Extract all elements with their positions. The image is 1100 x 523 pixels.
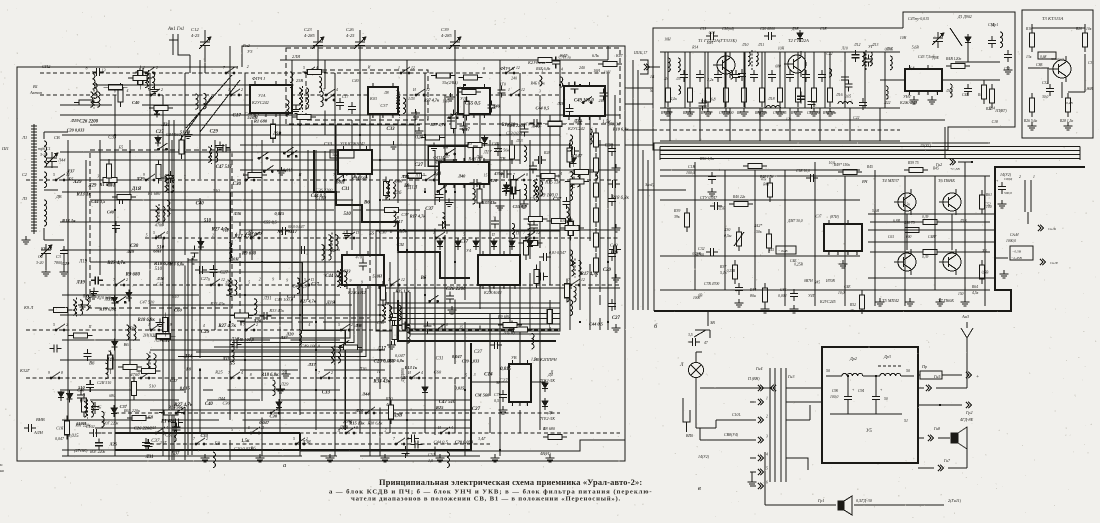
svg-text:R14: R14	[691, 45, 698, 49]
wire vertical	[509, 115, 511, 330]
rail bottom B3	[660, 289, 990, 291]
svg-text:С№Н: С№Н	[1010, 233, 1019, 237]
wire vertical segment	[454, 299, 456, 364]
wire fan	[398, 292, 560, 319]
capacitor	[566, 104, 574, 116]
wire	[826, 375, 842, 377]
transistor T4 MP37	[894, 189, 916, 215]
speaker Gr1	[838, 496, 852, 515]
ferrite rod hatch	[31, 134, 37, 136]
svg-text:1,5к: 1,5к	[399, 229, 408, 234]
resistor	[229, 313, 253, 318]
wire horizontal segment	[150, 209, 334, 211]
svg-text:1,5к: 1,5к	[241, 439, 250, 444]
resistor R30 volume	[737, 227, 742, 251]
inductor L9	[403, 98, 406, 114]
svg-text:СВ8(У4): СВ8(У4)	[724, 433, 739, 437]
wire vertical segment	[397, 120, 399, 203]
svg-text:Д9Е: Д9Е	[931, 56, 939, 60]
switch contact	[515, 174, 525, 181]
transformer core	[751, 50, 753, 70]
wire	[765, 504, 836, 506]
svg-text:5: 5	[503, 286, 505, 290]
capacitor	[359, 259, 367, 271]
wire horizontal segment	[483, 159, 520, 161]
svg-text:СМ(о4): СМ(о4)	[722, 27, 735, 31]
wire	[764, 452, 766, 505]
switch contact	[155, 427, 165, 434]
bus wire heavy 2	[187, 258, 189, 455]
resistor С21 120	[812, 83, 817, 107]
switch contact	[145, 67, 155, 74]
svg-text:9: 9	[349, 279, 351, 283]
svg-text:С1В: С1В	[688, 165, 696, 169]
diode	[570, 155, 576, 167]
svg-text:510: 510	[78, 385, 85, 390]
wire vertical segment	[162, 95, 164, 226]
capacitor	[497, 86, 505, 98]
svg-text:5: 5	[338, 323, 340, 327]
svg-text:R15 13к: R15 13к	[395, 288, 410, 293]
resistor	[159, 410, 183, 415]
svg-text:У5: У5	[866, 429, 872, 434]
resistor R35	[560, 226, 584, 231]
wire	[689, 52, 691, 83]
wire vertical segment	[229, 440, 231, 460]
svg-text:С7И 3и: С7И 3и	[608, 122, 620, 126]
svg-text:Пр: Пр	[921, 364, 927, 369]
wire	[43, 132, 45, 139]
wire	[1068, 91, 1085, 93]
capacitor	[571, 82, 579, 94]
svg-text:2: 2	[259, 278, 261, 282]
svg-text:12к: 12к	[786, 118, 792, 122]
resistor R48 1.5k	[768, 178, 773, 202]
resistor	[98, 177, 122, 182]
inductor	[92, 74, 95, 90]
svg-text:Др2: Др2	[849, 356, 857, 361]
resistor	[81, 393, 86, 417]
ferrite rod hatch	[31, 185, 37, 187]
svg-text:0,015: 0,015	[283, 168, 294, 173]
diode	[527, 238, 533, 250]
inductor	[731, 70, 733, 79]
svg-text:6Лк: 6Лк	[592, 53, 599, 58]
wire vertical segment	[324, 110, 326, 135]
wire	[786, 387, 822, 389]
resistor R2 1к	[688, 83, 693, 107]
inductor	[167, 201, 170, 217]
wire horizontal segment	[378, 304, 385, 306]
svg-text:4: 4	[766, 453, 768, 457]
ground	[22, 236, 31, 244]
wire horizontal segment	[298, 321, 313, 323]
inductor	[337, 271, 340, 287]
svg-text:3: 3	[97, 174, 99, 178]
transformer core	[93, 90, 95, 109]
wire	[868, 241, 995, 243]
speaker Gr2	[951, 427, 967, 449]
rail B3	[868, 277, 995, 279]
svg-text:3: 3	[837, 252, 839, 256]
wire to Gn2	[944, 127, 946, 158]
capacitor	[91, 276, 103, 284]
inductor	[208, 147, 211, 163]
svg-text:1: 1	[462, 115, 464, 119]
svg-text:П: П	[88, 325, 92, 329]
ferrite rod hatch	[31, 158, 37, 160]
svg-text:Принципиальная электрическая: Принципиальная электрическая схема прием…	[379, 478, 642, 487]
wire vertical B3	[784, 170, 786, 306]
switch contact	[245, 324, 255, 331]
inductor	[539, 76, 542, 86]
wire	[958, 161, 972, 163]
svg-text:15: 15	[459, 325, 463, 329]
ground	[89, 291, 98, 299]
svg-text:С18: С18	[709, 31, 715, 35]
capacitor	[162, 174, 174, 182]
svg-text:1: 1	[511, 403, 513, 407]
resistor R39	[685, 208, 690, 232]
wire horizontal segment	[90, 199, 353, 201]
svg-text:Л17: Л17	[377, 347, 387, 352]
junction	[244, 359, 246, 361]
junction	[464, 84, 466, 86]
resistor	[338, 345, 362, 350]
wire vertical segment	[324, 60, 326, 89]
svg-text:R49* 150к: R49* 150к	[833, 163, 850, 167]
ladder connector row	[758, 483, 763, 489]
resistor R49	[838, 170, 862, 175]
svg-text:0,015: 0,015	[455, 385, 465, 390]
ferrite rod hatch	[31, 149, 37, 151]
resistor right column	[594, 253, 599, 277]
svg-text:680: 680	[80, 398, 86, 402]
svg-text:68Н: 68Н	[153, 249, 161, 254]
svg-text:С44 0,5: С44 0,5	[91, 199, 106, 204]
inductor right column	[570, 300, 573, 316]
svg-text:4-285: 4-285	[304, 33, 315, 38]
ferrite rod hatch	[31, 179, 37, 181]
capacitor C94	[872, 392, 880, 404]
svg-text:С32: С32	[1042, 81, 1048, 85]
transformer core	[149, 352, 151, 371]
interblock wire	[642, 150, 644, 310]
wire	[700, 387, 772, 389]
svg-text:1: 1	[418, 173, 420, 177]
voltage callout box	[1010, 246, 1033, 260]
wire horizontal	[62, 134, 560, 136]
svg-text:ДВ 4Б: ДВ 4Б	[90, 405, 102, 409]
svg-text:4: 4	[236, 66, 238, 70]
svg-text:Л38: Л38	[354, 323, 363, 328]
wire	[868, 229, 995, 231]
switch contact	[245, 174, 255, 181]
wire fan	[394, 292, 560, 313]
inductor Dr2	[842, 373, 863, 376]
svg-text:трб.С1: трб.С1	[38, 146, 51, 151]
ground	[291, 106, 300, 114]
svg-text:К2УС242: К2УС242	[251, 100, 269, 105]
IC U1G K2ZhA242	[905, 65, 942, 96]
switch gang dashed line	[26, 329, 560, 331]
connector ladder bar	[785, 368, 787, 482]
wire vertical	[579, 95, 581, 310]
svg-text:Л31: Л31	[145, 455, 154, 460]
wire	[1079, 147, 1081, 161]
wire vertical segment	[199, 60, 201, 179]
svg-text:С37: С37	[425, 207, 434, 212]
svg-text:Л36: Л36	[156, 276, 165, 281]
svg-text:С47 510: С47 510	[140, 300, 155, 305]
svg-text:Л36: Л36	[392, 191, 402, 196]
wire horizontal segment	[588, 287, 620, 289]
svg-text:1: 1	[1033, 175, 1035, 179]
resistor	[509, 327, 533, 332]
junction	[334, 399, 336, 401]
svg-text:П: П	[414, 173, 418, 177]
wire vertical segment	[569, 140, 571, 168]
svg-text:R10 6,8к: R10 6,8к	[388, 358, 405, 363]
svg-text:Гр1: Гр1	[817, 498, 824, 503]
svg-text:С22: С22	[853, 116, 859, 120]
svg-text:R45: R45	[767, 248, 774, 252]
wire vertical segment	[424, 73, 426, 167]
wire fan	[390, 292, 560, 308]
IC U1G K2US242	[564, 82, 605, 121]
ground bottom row	[491, 454, 500, 462]
svg-text:50: 50	[884, 397, 888, 401]
svg-text:СП2: СП2	[42, 64, 51, 69]
inductor	[204, 93, 207, 109]
svg-text:R1 680: R1 680	[161, 419, 175, 424]
wire nest top	[660, 154, 1080, 156]
svg-text:0,015: 0,015	[500, 367, 511, 372]
wire	[936, 387, 967, 389]
wire horizontal segment	[62, 455, 302, 457]
rail top B3	[660, 169, 860, 171]
wire horizontal segment	[360, 455, 480, 457]
svg-text:а: а	[283, 462, 286, 469]
svg-text:Ш1: Ш1	[1, 146, 9, 151]
svg-text:С37: С37	[553, 198, 562, 203]
resistor R52	[860, 290, 865, 314]
svg-text:С44 0,5: С44 0,5	[244, 112, 259, 117]
junction	[406, 419, 408, 421]
resistor	[567, 143, 572, 167]
transformer core	[399, 96, 401, 118]
wire vertical segment	[489, 314, 491, 396]
resistor R64 4.5k	[980, 260, 985, 284]
ferrite rod hatch	[31, 161, 37, 163]
svg-text:13: 13	[225, 281, 229, 285]
bus wire heavy 2	[191, 258, 193, 455]
svg-text:3: 3	[519, 403, 521, 407]
svg-text:И: И	[367, 66, 371, 70]
wire vertical segment	[444, 95, 446, 220]
capacitor	[95, 438, 103, 450]
svg-text:51: 51	[904, 419, 908, 423]
switch contact	[210, 279, 220, 286]
inductor	[536, 186, 539, 202]
svg-text:R18: R18	[1025, 27, 1032, 31]
wire horizontal	[95, 84, 250, 86]
wire	[875, 404, 877, 414]
wire vertical	[414, 115, 416, 330]
switch contact	[400, 67, 410, 74]
svg-text:Л5В: Л5В	[959, 219, 967, 223]
capacitor right column	[608, 299, 616, 311]
resistor	[431, 73, 455, 78]
ferrite rod hatch	[31, 152, 37, 154]
svg-text:Л19: Л19	[222, 356, 231, 361]
wire	[659, 147, 661, 161]
svg-text:7: 7	[856, 252, 858, 256]
svg-text:СЗЗ: СЗЗ	[324, 143, 333, 148]
svg-text:R59 75: R59 75	[907, 161, 919, 165]
ground	[1000, 270, 1009, 278]
wire vertical B3	[904, 176, 906, 306]
ferrite rod hatch	[31, 188, 37, 190]
capacitor	[92, 68, 104, 76]
ladder connector row	[758, 417, 763, 423]
resistor	[156, 160, 161, 184]
wire fan	[406, 292, 560, 329]
svg-text:И: И	[412, 88, 416, 92]
wire vertical segment	[479, 95, 481, 168]
svg-text:Л17: Л17	[394, 219, 403, 224]
switch contact	[582, 97, 592, 104]
transformer core	[211, 145, 213, 164]
svg-text:У4: У4	[466, 248, 471, 253]
svg-text:в: в	[698, 485, 701, 492]
transformer core	[574, 258, 576, 277]
svg-text:Гн5: Гн5	[933, 374, 940, 379]
svg-text:Л8: Л8	[383, 91, 389, 95]
inductor	[407, 327, 410, 343]
minus output	[966, 402, 971, 408]
svg-text:R27 4,7к: R27 4,7к	[300, 298, 317, 303]
wire vertical segment	[229, 46, 231, 420]
junction	[406, 249, 408, 251]
wire	[1031, 24, 1033, 28]
resistor R44	[763, 283, 768, 307]
transformer core	[324, 243, 326, 262]
switch contact	[570, 279, 580, 286]
svg-text:С49 100,0: С49 100,0	[574, 98, 594, 103]
resistor	[131, 376, 136, 400]
svg-text:4700: 4700	[155, 223, 164, 228]
svg-text:С37: С37	[165, 433, 173, 438]
svg-text:СЗЗ: СЗЗ	[322, 390, 331, 395]
capacitor C4E	[964, 84, 972, 96]
svg-text:3-20: 3-20	[40, 152, 47, 157]
switch contact	[230, 89, 240, 96]
svg-text:Л16: Л16	[835, 93, 843, 97]
capacitor	[688, 338, 700, 346]
capacitor C13	[706, 32, 718, 40]
wire vertical B1	[704, 52, 706, 108]
switch contact	[250, 232, 260, 239]
connector Gn2	[950, 159, 955, 165]
wire fan	[386, 292, 560, 303]
wire	[880, 79, 905, 81]
inductor	[560, 77, 563, 87]
wire horizontal	[60, 314, 385, 316]
wire horizontal	[62, 249, 340, 251]
junction	[454, 191, 456, 193]
svg-text:В6: В6	[420, 276, 427, 281]
resistor	[118, 83, 123, 107]
svg-text:R18 6,8к: R18 6,8к	[261, 373, 279, 378]
diode	[276, 399, 282, 411]
switch contact	[340, 324, 350, 331]
diode	[67, 391, 73, 403]
inductor L5	[678, 58, 680, 72]
svg-text:Л29: Л29	[280, 381, 289, 386]
svg-text:R9 680: R9 680	[497, 314, 511, 319]
svg-text:12: 12	[521, 88, 525, 92]
wire vertical segment	[589, 115, 591, 241]
resistor	[104, 85, 128, 90]
wire vertical segment	[162, 237, 164, 456]
ground	[790, 305, 799, 313]
inductor pair	[153, 354, 156, 370]
resistor right column	[594, 203, 599, 227]
ferrite rod hatch	[31, 203, 37, 205]
switch gang dashed line	[145, 237, 620, 239]
connector Gn3	[771, 385, 776, 391]
ground	[277, 167, 286, 175]
wire fan	[232, 288, 354, 343]
switch contact	[250, 427, 260, 434]
resistor R8	[543, 435, 567, 440]
ground	[90, 288, 99, 296]
svg-text:С29: С29	[210, 129, 219, 134]
svg-text:К2УС245: К2УС245	[819, 300, 836, 304]
capacitor C83 0.047	[278, 227, 290, 235]
switch contact	[150, 324, 160, 331]
bus thick right	[398, 300, 556, 341]
svg-text:4-25: 4-25	[346, 33, 355, 38]
svg-text:СЗЗ: СЗЗ	[201, 433, 209, 438]
inductor	[442, 213, 445, 229]
resistor R18 13k	[1030, 28, 1035, 52]
resistor	[137, 368, 161, 373]
wire	[707, 52, 709, 83]
ferrite rod hatch	[31, 218, 37, 220]
wire	[169, 39, 178, 41]
svg-text:R33 43к: R33 43к	[268, 308, 285, 313]
top rail B1	[660, 51, 900, 53]
svg-text:R28: R28	[543, 151, 550, 155]
wire horizontal segment	[380, 287, 572, 289]
wire vertical B1	[664, 52, 666, 108]
svg-text:У4Г: У4Г	[808, 294, 816, 298]
svg-text:7: 7	[936, 92, 938, 96]
svg-text:8: 8	[446, 231, 448, 235]
svg-text:4: 4	[235, 232, 237, 236]
inductor	[108, 351, 111, 367]
svg-text:Л12: Л12	[853, 43, 860, 47]
switch contact	[345, 232, 355, 239]
junction	[244, 294, 246, 296]
wire vertical segment	[397, 216, 399, 219]
resistor	[546, 218, 570, 223]
svg-text:ВНВ: ВНВ	[36, 417, 45, 422]
inductor L14	[890, 56, 892, 70]
svg-text:2: 2	[331, 371, 333, 375]
